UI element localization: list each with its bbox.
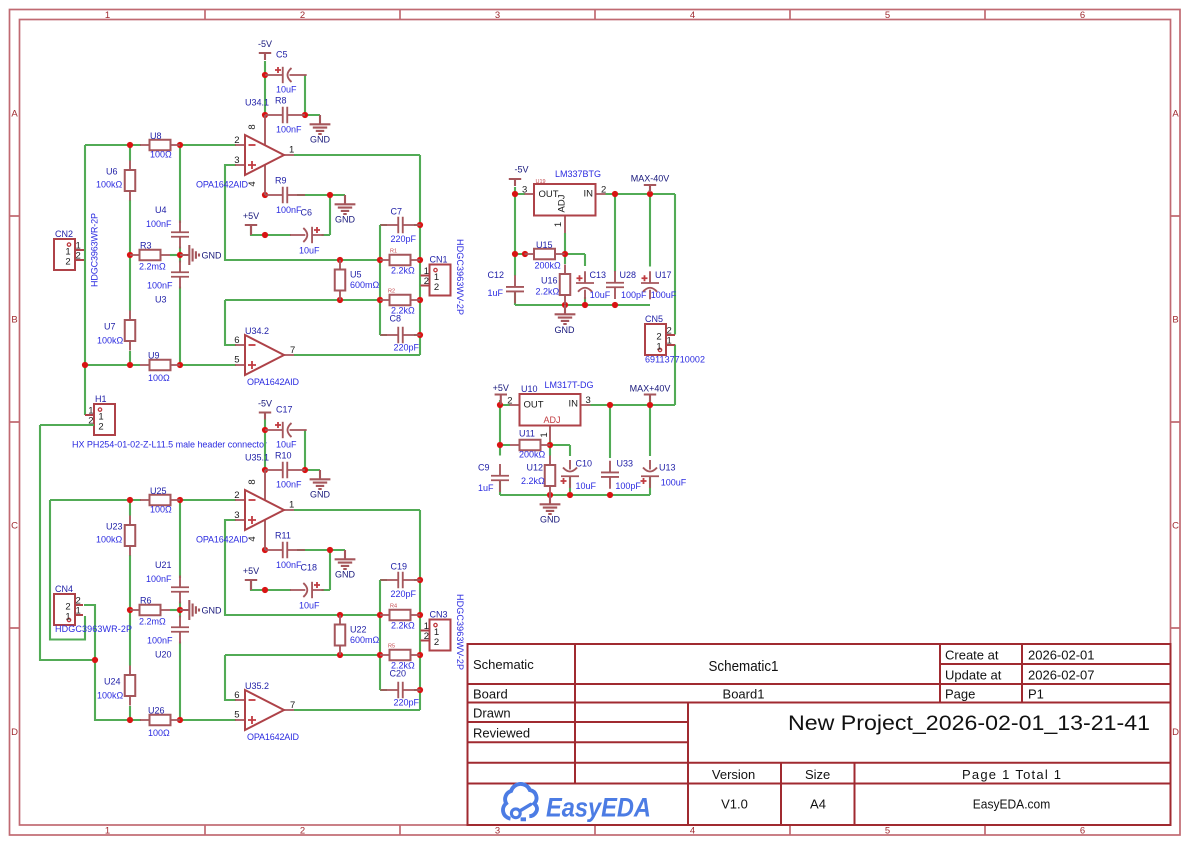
svg-text:10uF: 10uF <box>276 85 297 95</box>
svg-text:GND: GND <box>310 490 331 500</box>
svg-text:1: 1 <box>289 145 294 156</box>
svg-text:LM337BTG: LM337BTG <box>555 169 601 179</box>
svg-text:C18: C18 <box>301 563 318 573</box>
svg-text:B: B <box>1172 315 1178 326</box>
resistor R1 <box>380 255 420 266</box>
svg-text:100nF: 100nF <box>146 574 172 584</box>
svg-text:HDGC3963WV-2P: HDGC3963WV-2P <box>455 239 465 315</box>
ground <box>540 495 561 514</box>
svg-text:CN4: CN4 <box>55 584 73 594</box>
svg-text:5: 5 <box>885 826 890 837</box>
wire net pin3 top <box>225 165 380 260</box>
resistor R5 <box>380 650 420 661</box>
svg-text:2: 2 <box>76 251 81 262</box>
ruler letters left <box>11 109 18 739</box>
svg-text:U24: U24 <box>104 677 121 687</box>
voltage regulator U10 LM317T-DG <box>507 394 591 441</box>
svg-text:GND: GND <box>202 251 223 261</box>
op-amp U34.2 <box>235 335 294 375</box>
svg-text:U10: U10 <box>521 384 538 394</box>
svg-text:A: A <box>1172 109 1179 120</box>
svg-text:2: 2 <box>300 10 305 21</box>
svg-text:100uF: 100uF <box>661 478 687 488</box>
svg-text:3: 3 <box>522 185 527 196</box>
svg-text:5: 5 <box>885 10 890 21</box>
svg-text:R2: R2 <box>388 289 395 295</box>
title block table <box>468 644 1171 825</box>
resistor U25 <box>140 495 180 506</box>
svg-text:OPA1642AID: OPA1642AID <box>247 377 300 387</box>
svg-text:Version: Version <box>712 767 755 782</box>
svg-text:100nF: 100nF <box>147 636 173 646</box>
svg-text:5: 5 <box>234 355 239 366</box>
resistor R4 <box>380 610 420 621</box>
resistor U6 <box>125 161 136 201</box>
polarized capacitor C18 <box>290 582 324 598</box>
wire net R3 right top <box>170 254 180 256</box>
svg-text:C9: C9 <box>478 463 490 473</box>
wire net pin5 row bottom <box>95 719 236 721</box>
svg-text:Schematic1: Schematic1 <box>709 658 779 675</box>
svg-text:1: 1 <box>289 500 294 511</box>
svg-text:-5V: -5V <box>258 39 272 49</box>
svg-text:EasyEDA.com: EasyEDA.com <box>973 797 1051 812</box>
wire net +5V to OUT <box>500 400 510 456</box>
svg-text:R8: R8 <box>275 96 287 106</box>
svg-text:2.2kΩ: 2.2kΩ <box>521 476 545 486</box>
svg-text:220pF: 220pF <box>391 234 417 244</box>
svg-text:2: 2 <box>300 826 305 837</box>
resistor U24 <box>125 666 136 706</box>
wire net ADJ <box>515 233 585 305</box>
svg-text:100nF: 100nF <box>276 125 302 135</box>
svg-text:U25: U25 <box>150 486 167 496</box>
svg-text:A4: A4 <box>810 797 826 812</box>
svg-text:6: 6 <box>1080 10 1085 21</box>
junction dots LM337 <box>512 191 653 308</box>
svg-text:200kΩ: 200kΩ <box>519 450 546 460</box>
power flag -5V <box>258 399 272 420</box>
wire net R9 gnd bottom <box>297 549 345 551</box>
ruler letters right <box>1172 109 1179 739</box>
polarized capacitor C5 <box>265 67 307 83</box>
ground <box>310 470 331 500</box>
svg-text:GND: GND <box>310 135 331 145</box>
capacitor C12 <box>506 275 524 303</box>
svg-text:C7: C7 <box>391 207 403 217</box>
svg-text:U4: U4 <box>155 205 167 215</box>
svg-text:MAX-40V: MAX-40V <box>631 174 670 184</box>
svg-text:6: 6 <box>1080 826 1085 837</box>
svg-text:-5V: -5V <box>514 165 528 175</box>
power flag +5V <box>493 383 509 405</box>
svg-text:C: C <box>1172 521 1179 532</box>
EasyEDA logo <box>503 784 651 823</box>
svg-text:1: 1 <box>65 612 70 623</box>
svg-text:2.2mΩ: 2.2mΩ <box>139 262 166 272</box>
svg-text:Page: Page <box>945 687 975 702</box>
svg-text:P1: P1 <box>1028 687 1044 702</box>
polarized capacitor C17 <box>265 422 307 438</box>
svg-text:HDGC3963WV-2P: HDGC3963WV-2P <box>455 594 465 670</box>
svg-text:GND: GND <box>555 325 576 335</box>
svg-text:3: 3 <box>234 155 239 166</box>
svg-text:Board: Board <box>473 687 508 702</box>
wire net vertical x85 CN2/H1 <box>84 145 86 415</box>
svg-text:C19: C19 <box>391 562 408 572</box>
wire net fb row300 bottom <box>225 655 380 700</box>
wire net out1 bottom <box>294 510 420 710</box>
power flag +5V <box>243 211 259 235</box>
svg-text:U3: U3 <box>155 295 167 305</box>
svg-text:1uF: 1uF <box>488 288 504 298</box>
wire net out2 top <box>294 354 420 356</box>
wire net U28 top <box>614 194 616 272</box>
svg-text:100nF: 100nF <box>146 219 172 229</box>
svg-text:U33: U33 <box>617 459 634 469</box>
resistor U7 <box>125 311 136 351</box>
wire net U17 top <box>649 194 651 267</box>
svg-text:100Ω: 100Ω <box>148 373 170 383</box>
svg-text:Board1: Board1 <box>723 687 765 702</box>
svg-text:HX PH254-01-02-Z-L11.5 male he: HX PH254-01-02-Z-L11.5 male header conne… <box>72 440 267 450</box>
wire net gnd row 337 <box>515 292 650 306</box>
pin numbers U35.1 <box>234 479 294 541</box>
svg-text:C17: C17 <box>276 405 293 415</box>
resistor U12 <box>545 456 556 496</box>
svg-text:2: 2 <box>424 631 429 642</box>
connector CN5 <box>645 324 675 355</box>
wire net out1 top <box>294 155 420 355</box>
svg-text:2: 2 <box>434 637 439 648</box>
polarized capacitor U13 <box>641 460 660 488</box>
wire net ADJ 317 <box>500 441 570 495</box>
svg-text:691137710002: 691137710002 <box>645 355 705 365</box>
svg-text:Update at: Update at <box>945 668 1002 683</box>
junction dots bottom <box>92 427 423 723</box>
ground <box>555 305 576 324</box>
op-amp U35.1 <box>235 470 294 550</box>
capacitor U28 <box>606 271 624 299</box>
svg-text:7: 7 <box>290 700 295 711</box>
svg-text:U22: U22 <box>350 625 367 635</box>
resistor U16 <box>560 265 571 305</box>
ground <box>335 195 356 225</box>
ruler ticks right <box>1171 216 1181 628</box>
wire net gnd row 317 <box>500 480 650 495</box>
wire net x130 chain bottom <box>129 500 131 720</box>
svg-text:6: 6 <box>234 690 239 701</box>
ruler ticks left <box>10 216 20 628</box>
wire net x305 bottom <box>305 430 320 470</box>
connector CN2 <box>54 239 84 270</box>
svg-text:200kΩ: 200kΩ <box>535 261 562 271</box>
capacitor U20 <box>171 616 189 644</box>
title block texts <box>473 648 1095 812</box>
svg-text:LM317T-DG: LM317T-DG <box>545 380 594 390</box>
svg-text:1: 1 <box>656 342 661 353</box>
wire net H1 pin2 left drop <box>40 425 95 660</box>
svg-text:2: 2 <box>507 396 512 407</box>
svg-text:U26: U26 <box>148 706 165 716</box>
op-amp U35.2 <box>235 690 294 730</box>
svg-text:MAX+40V: MAX+40V <box>630 384 671 394</box>
svg-text:U16: U16 <box>541 276 558 286</box>
svg-text:100Ω: 100Ω <box>148 728 170 738</box>
wire net x380 top <box>380 225 420 335</box>
wire net fb row300 top <box>225 300 380 345</box>
svg-text:2: 2 <box>234 135 239 146</box>
svg-text:GND: GND <box>540 515 561 525</box>
wire net U16 top <box>564 254 566 264</box>
svg-text:2: 2 <box>434 282 439 293</box>
svg-text:GND: GND <box>202 606 223 616</box>
svg-text:220pF: 220pF <box>394 343 420 353</box>
svg-text:100nF: 100nF <box>147 281 173 291</box>
svg-text:C5: C5 <box>276 50 288 60</box>
svg-text:220pF: 220pF <box>394 698 420 708</box>
wire net C6 row bottom <box>251 550 330 590</box>
connector CN1 <box>421 265 451 296</box>
wire net x305 top <box>305 75 320 115</box>
svg-text:600mΩ: 600mΩ <box>350 635 380 645</box>
svg-text:D: D <box>11 727 18 738</box>
svg-text:4: 4 <box>247 536 258 541</box>
svg-text:2: 2 <box>601 185 606 196</box>
capacitor U33 <box>601 461 619 489</box>
wire net IN+ row top <box>85 144 236 146</box>
svg-text:U28: U28 <box>620 270 637 280</box>
ruler numbers top <box>105 10 1085 21</box>
svg-text:100Ω: 100Ω <box>150 505 172 515</box>
wire net U33 top <box>609 405 611 458</box>
ruler ticks top <box>205 10 985 20</box>
svg-text:U5: U5 <box>350 270 362 280</box>
svg-text:U13: U13 <box>659 463 676 473</box>
ground <box>335 550 356 580</box>
svg-text:U34.2: U34.2 <box>245 326 269 336</box>
wire net x180 chain top <box>179 145 181 365</box>
svg-text:8: 8 <box>247 479 258 484</box>
wire net x180 chain bottom <box>179 500 181 720</box>
capacitor U21 <box>171 576 189 604</box>
svg-text:GND: GND <box>335 215 356 225</box>
svg-text:R4: R4 <box>390 604 397 610</box>
wire net IN+ row bottom <box>50 499 236 501</box>
svg-text:C20: C20 <box>390 669 407 679</box>
svg-text:2: 2 <box>234 490 239 501</box>
svg-text:-5V: -5V <box>258 399 272 409</box>
power flag MAX+40V <box>630 384 671 402</box>
voltage regulator U19 LM337BTG <box>522 184 606 233</box>
resistor U11 <box>510 440 550 451</box>
svg-text:R5: R5 <box>388 644 395 650</box>
svg-text:100kΩ: 100kΩ <box>96 535 123 545</box>
svg-text:U8: U8 <box>150 131 162 141</box>
wire net -5V rail bottom <box>264 419 266 471</box>
wire net R9 gnd top <box>297 194 345 196</box>
capacitor R11 <box>265 542 305 558</box>
connector CN3 <box>421 620 451 651</box>
svg-text:OUT: OUT <box>524 400 544 411</box>
svg-text:3: 3 <box>495 10 500 21</box>
svg-text:GND: GND <box>335 570 356 580</box>
svg-text:1: 1 <box>667 336 672 347</box>
wire net IN rail +40V <box>591 400 676 405</box>
polarized capacitor C6 <box>290 227 324 243</box>
wire net -5V to OUT <box>515 187 525 276</box>
polarized capacitor C10 <box>561 460 580 488</box>
capacitor C9 <box>491 464 509 492</box>
ground <box>180 245 222 265</box>
svg-text:3: 3 <box>234 510 239 521</box>
svg-text:U12: U12 <box>527 463 544 473</box>
svg-text:2.2kΩ: 2.2kΩ <box>536 287 560 297</box>
capacitor U3 <box>171 261 189 289</box>
svg-text:D: D <box>1172 727 1179 738</box>
wire net R3 right bottom <box>170 609 180 611</box>
wire net C6 row top <box>251 195 330 235</box>
op-amp U34.1 <box>235 115 294 195</box>
capacitor R8 <box>265 107 305 123</box>
svg-text:6: 6 <box>234 335 239 346</box>
power flag +5V <box>243 566 259 590</box>
svg-text:10uF: 10uF <box>276 440 297 450</box>
svg-text:U35.2: U35.2 <box>245 681 269 691</box>
svg-text:ADJ: ADJ <box>544 415 561 425</box>
wire net pin5 row top <box>85 364 236 366</box>
svg-text:100kΩ: 100kΩ <box>97 336 124 346</box>
svg-text:2.2kΩ: 2.2kΩ <box>391 266 415 276</box>
svg-text:C: C <box>11 521 18 532</box>
wire net CN4 pin2 drop <box>84 605 141 720</box>
svg-text:2026-02-07: 2026-02-07 <box>1028 668 1095 683</box>
pin numbers U34.2 <box>234 335 295 366</box>
svg-text:R11: R11 <box>275 531 291 541</box>
svg-text:U19: U19 <box>536 179 546 185</box>
svg-text:R1: R1 <box>390 249 397 255</box>
wire net U13 top <box>649 405 651 495</box>
resistor U22 <box>335 615 346 655</box>
svg-text:HDGC3963WR-2P: HDGC3963WR-2P <box>90 213 100 287</box>
connector H1 <box>85 404 115 435</box>
svg-text:V1.0: V1.0 <box>721 797 748 812</box>
svg-text:10uF: 10uF <box>299 246 320 256</box>
svg-text:4: 4 <box>690 826 695 837</box>
svg-text:100nF: 100nF <box>276 205 302 215</box>
svg-text:+5V: +5V <box>243 211 259 221</box>
svg-text:CN3: CN3 <box>430 610 448 620</box>
capacitor R9 <box>265 187 305 203</box>
svg-text:CN5: CN5 <box>645 314 663 324</box>
wire net pin3 bottom <box>225 520 380 615</box>
svg-text:OPA1642AID: OPA1642AID <box>196 535 249 545</box>
power flag -5V <box>258 39 272 60</box>
svg-text:U35.1: U35.1 <box>245 453 269 463</box>
svg-text:1: 1 <box>553 222 564 227</box>
svg-text:Reviewed: Reviewed <box>473 726 530 741</box>
svg-text:4: 4 <box>247 181 258 186</box>
capacitor R10 <box>265 462 305 478</box>
svg-text:U11: U11 <box>519 429 535 439</box>
svg-text:220pF: 220pF <box>391 589 417 599</box>
svg-text:B: B <box>11 315 17 326</box>
svg-text:R6: R6 <box>140 596 152 606</box>
resistor U15 <box>525 249 565 260</box>
resistor U8 <box>140 140 180 151</box>
ruler ticks bottom <box>205 825 985 835</box>
wire net CN5 pin1 drop <box>674 345 676 406</box>
svg-text:H1: H1 <box>95 394 107 404</box>
junction dots LM317 <box>497 402 653 498</box>
svg-text:100Ω: 100Ω <box>150 150 172 160</box>
svg-text:1: 1 <box>76 606 81 617</box>
svg-text:U7: U7 <box>104 322 116 332</box>
svg-text:R3: R3 <box>140 241 152 251</box>
svg-text:3: 3 <box>495 826 500 837</box>
svg-text:Drawn: Drawn <box>473 706 511 721</box>
resistor U5 <box>335 260 346 300</box>
svg-text:U9: U9 <box>148 351 160 361</box>
svg-text:7: 7 <box>290 345 295 356</box>
svg-text:2.2kΩ: 2.2kΩ <box>391 621 415 631</box>
svg-text:Page 1 Total 1: Page 1 Total 1 <box>962 767 1061 782</box>
ground <box>180 600 222 620</box>
svg-text:OPA1642AID: OPA1642AID <box>247 732 300 742</box>
svg-text:100kΩ: 100kΩ <box>96 180 123 190</box>
svg-text:CN1: CN1 <box>430 255 448 265</box>
svg-text:5: 5 <box>234 710 239 721</box>
capacitor C19 <box>381 572 421 588</box>
svg-text:8: 8 <box>247 124 258 129</box>
svg-text:EasyEDA: EasyEDA <box>546 793 651 823</box>
resistor U26 <box>140 715 180 726</box>
svg-text:10uF: 10uF <box>590 290 611 300</box>
svg-text:+5V: +5V <box>493 383 509 393</box>
svg-text:IN: IN <box>584 189 594 200</box>
svg-text:R10: R10 <box>275 451 292 461</box>
svg-text:C13: C13 <box>590 270 607 280</box>
svg-text:U23: U23 <box>106 522 123 532</box>
svg-text:100nF: 100nF <box>276 480 302 490</box>
svg-text:2026-02-01: 2026-02-01 <box>1028 648 1095 663</box>
svg-text:ADJ: ADJ <box>557 194 568 212</box>
ruler numbers bottom <box>105 826 1085 837</box>
wire net -5V rail top <box>264 61 266 116</box>
wire net x130 chain top <box>129 145 131 365</box>
wire net CN4 pin1 loop <box>50 500 85 640</box>
svg-text:HDGC3963WR-2P: HDGC3963WR-2P <box>55 624 132 634</box>
pin numbers U35.2 <box>234 690 295 721</box>
svg-text:1uF: 1uF <box>478 483 494 493</box>
polarized capacitor U17 <box>641 271 659 299</box>
polarized capacitor C13 <box>576 271 594 299</box>
svg-text:C10: C10 <box>576 459 593 469</box>
capacitor C20 <box>381 682 421 698</box>
svg-text:1: 1 <box>105 826 110 837</box>
resistor R2 <box>380 295 420 306</box>
resistor R3 <box>130 250 170 261</box>
svg-text:1: 1 <box>105 10 110 21</box>
svg-text:+5V: +5V <box>243 566 259 576</box>
wire net IN rail -40V <box>606 190 676 335</box>
capacitor C7 <box>381 217 421 233</box>
svg-text:U17: U17 <box>655 270 672 280</box>
svg-text:Create at: Create at <box>945 648 999 663</box>
svg-text:U15: U15 <box>536 240 553 250</box>
svg-text:100kΩ: 100kΩ <box>97 691 124 701</box>
svg-text:2: 2 <box>65 257 70 268</box>
